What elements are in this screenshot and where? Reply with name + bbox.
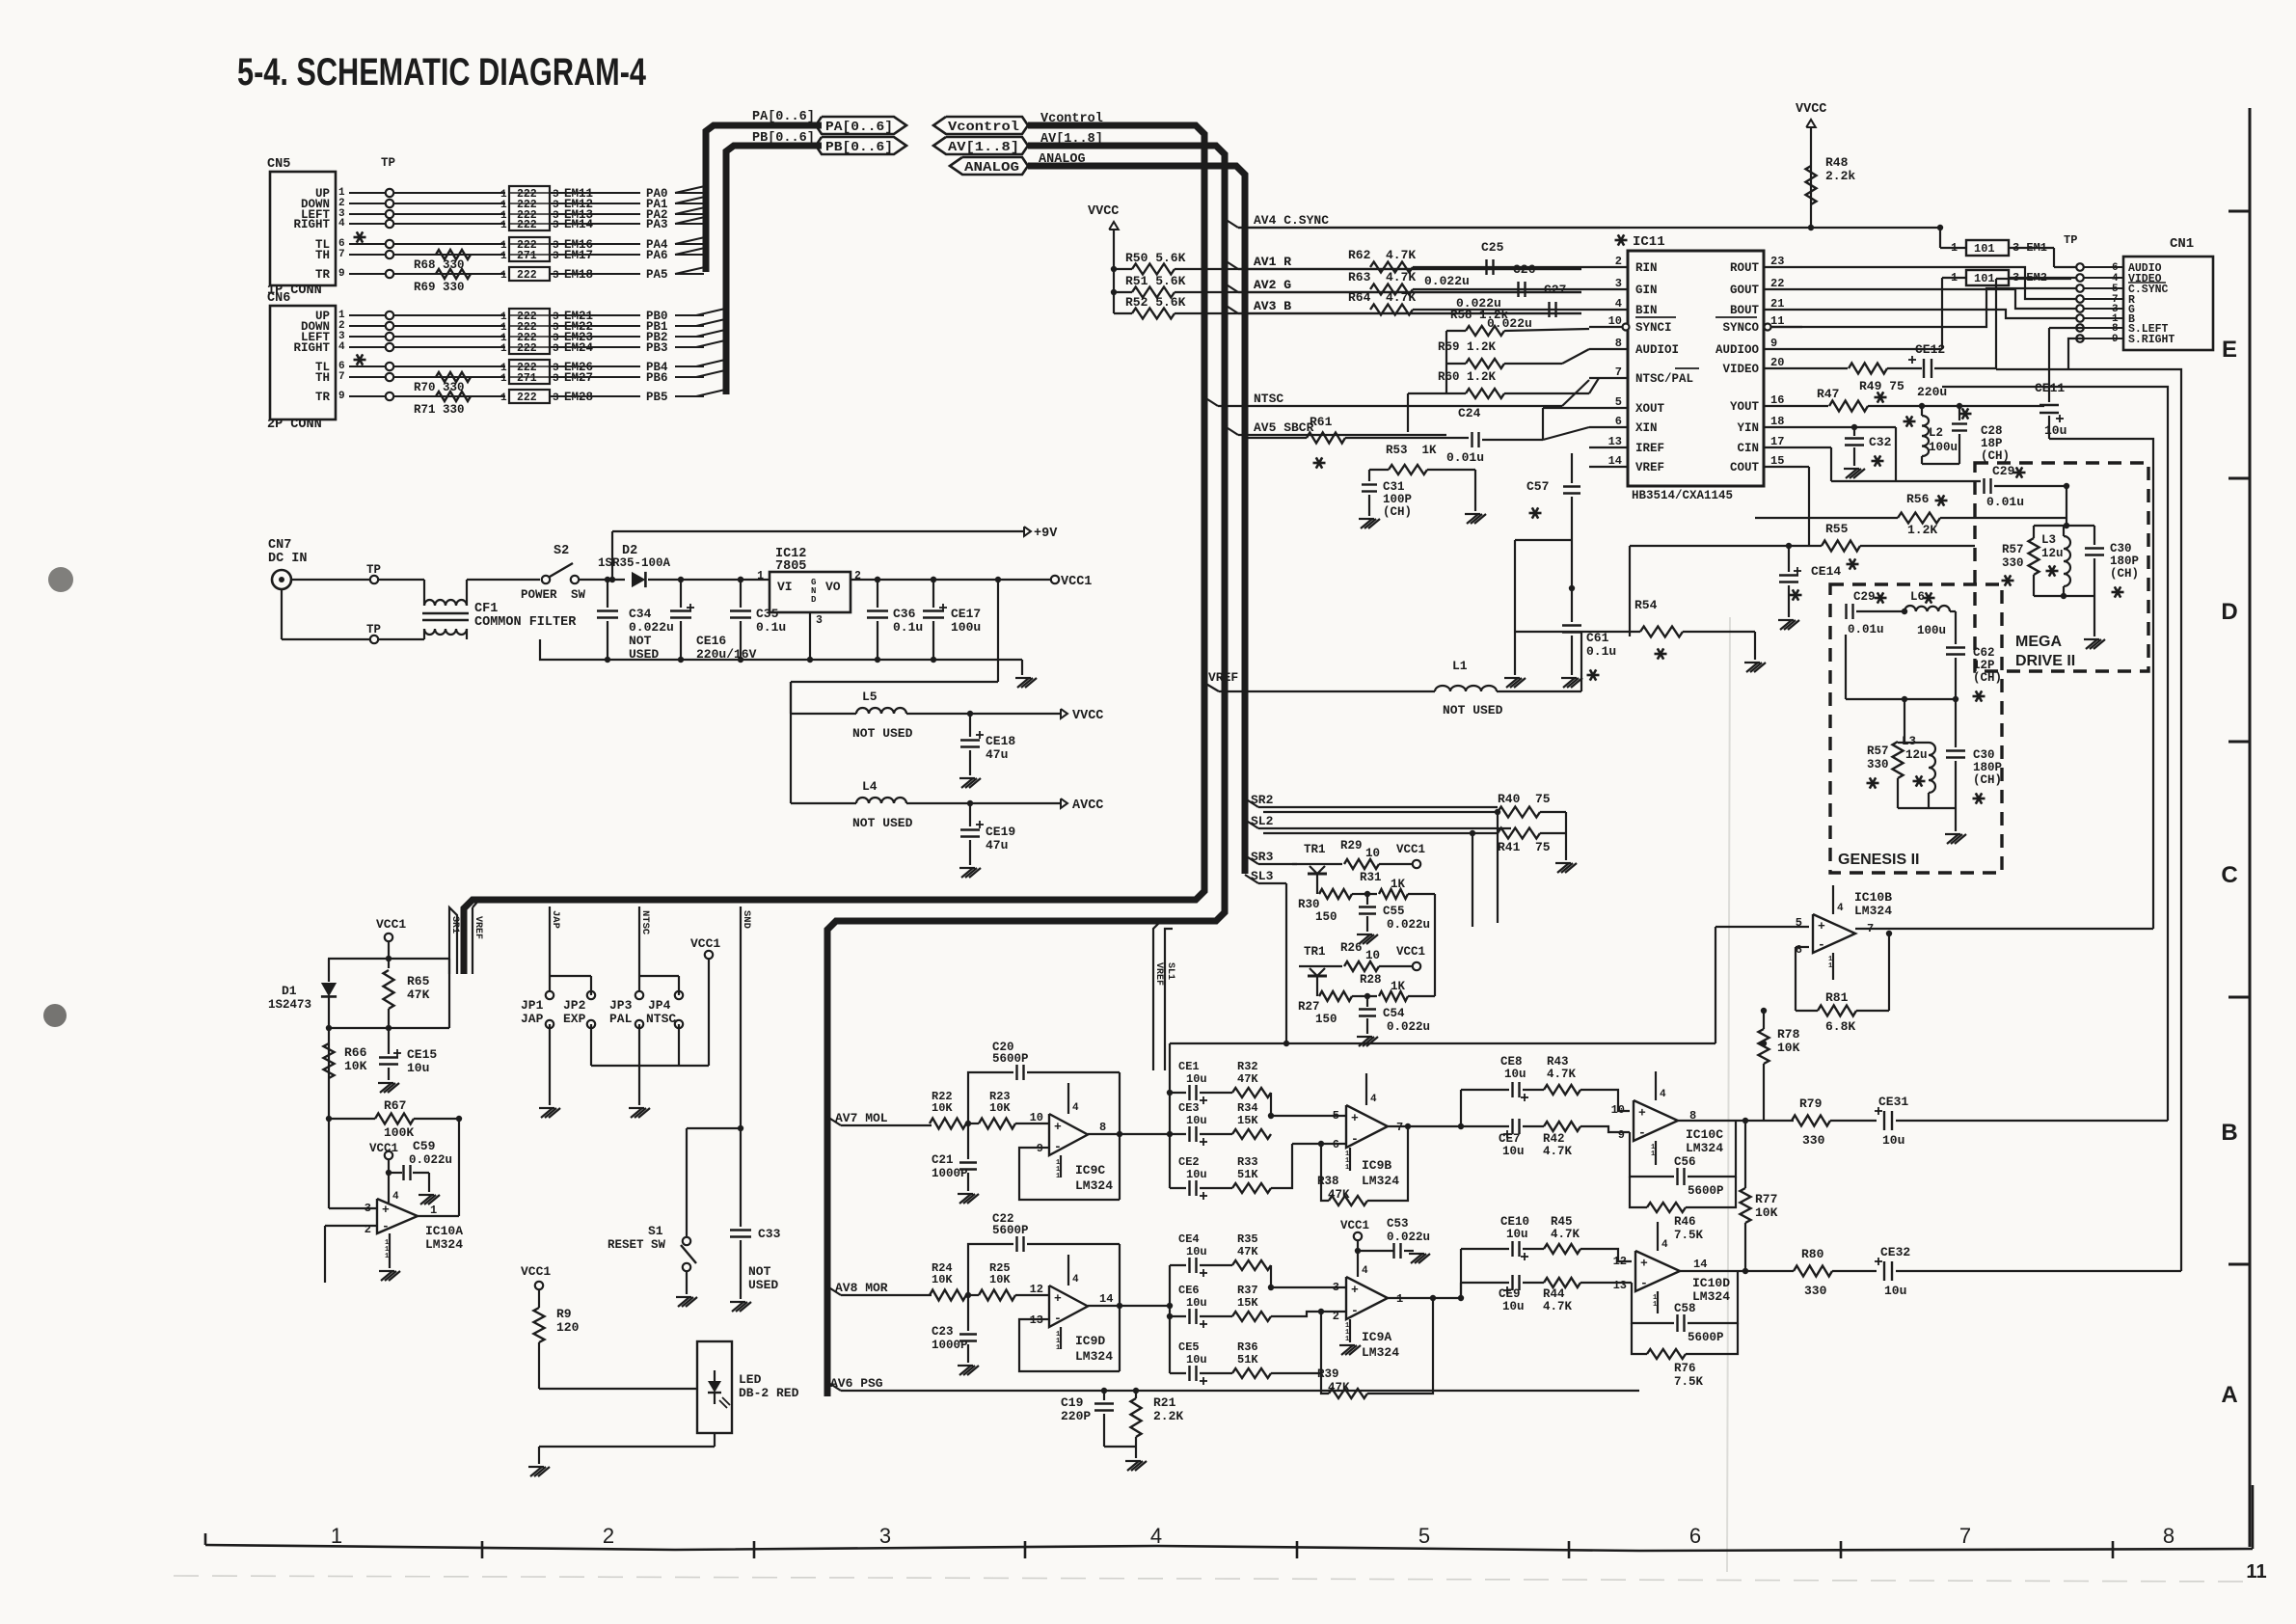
svg-text:VCC1: VCC1 — [521, 1264, 551, 1279]
svg-text:1: 1 — [385, 1253, 389, 1260]
svg-text:LM324: LM324 — [425, 1237, 463, 1252]
svg-text:100P: 100P — [1383, 493, 1412, 506]
svg-text:R26: R26 — [1340, 941, 1363, 955]
svg-text:D: D — [2221, 599, 2237, 625]
svg-text:XIN: XIN — [1635, 421, 1658, 435]
svg-text:0.01u: 0.01u — [1848, 623, 1884, 636]
svg-text:2: 2 — [603, 1524, 614, 1548]
svg-text:3: 3 — [553, 392, 559, 404]
svg-text:10: 10 — [1030, 1111, 1043, 1124]
svg-text:3: 3 — [553, 270, 559, 282]
svg-text:NOT USED: NOT USED — [852, 726, 913, 741]
svg-text:R80: R80 — [1801, 1247, 1824, 1261]
svg-text:S1: S1 — [648, 1224, 663, 1238]
svg-text:101: 101 — [1974, 272, 1995, 285]
svg-text:10u: 10u — [1186, 1296, 1207, 1310]
svg-text:C35: C35 — [756, 607, 779, 621]
svg-text:47u: 47u — [986, 747, 1008, 762]
svg-text:CF1: CF1 — [474, 602, 498, 616]
svg-text:10u: 10u — [1186, 1072, 1207, 1086]
svg-text:JP2: JP2 — [563, 998, 586, 1013]
svg-text:PA6: PA6 — [646, 249, 668, 262]
svg-text:NOT USED: NOT USED — [852, 816, 913, 830]
svg-text:0.022u: 0.022u — [1387, 918, 1430, 932]
svg-text:NTSC: NTSC — [646, 1012, 676, 1026]
svg-text:12u: 12u — [2041, 547, 2064, 560]
svg-text:3: 3 — [553, 251, 559, 262]
svg-text:DB-2 RED: DB-2 RED — [739, 1386, 799, 1400]
svg-text:12: 12 — [1030, 1283, 1043, 1296]
svg-text:R76: R76 — [1674, 1362, 1696, 1375]
svg-text:+: + — [382, 1203, 390, 1217]
svg-text:YIN: YIN — [1737, 421, 1759, 435]
svg-text:5: 5 — [1418, 1524, 1430, 1548]
svg-text:GENESIS II: GENESIS II — [1838, 852, 1919, 868]
svg-text:150: 150 — [1315, 910, 1337, 924]
svg-text:TR: TR — [315, 268, 331, 282]
svg-text:AVCC: AVCC — [1072, 798, 1103, 813]
svg-text:5600P: 5600P — [992, 1052, 1029, 1066]
svg-text:AV3 B: AV3 B — [1254, 299, 1291, 313]
svg-text:10K: 10K — [932, 1101, 953, 1115]
svg-text:PB6: PB6 — [646, 371, 668, 385]
svg-text:R46: R46 — [1674, 1215, 1696, 1229]
svg-text:C55: C55 — [1383, 905, 1405, 918]
svg-text:-: - — [382, 1219, 390, 1233]
svg-text:47K: 47K — [1237, 1245, 1258, 1259]
svg-text:0.022u: 0.022u — [1424, 274, 1470, 288]
svg-text:4.7K: 4.7K — [1547, 1068, 1577, 1081]
svg-text:R43: R43 — [1547, 1055, 1569, 1069]
svg-text:LM324: LM324 — [1075, 1178, 1113, 1193]
svg-text:TP: TP — [2064, 233, 2077, 247]
svg-text:10K: 10K — [989, 1273, 1011, 1286]
svg-text:R62 4.7K: R62 4.7K — [1348, 248, 1416, 262]
svg-text:+: + — [1351, 1111, 1359, 1125]
svg-text:3: 3 — [553, 220, 559, 231]
svg-text:R81: R81 — [1825, 990, 1849, 1005]
svg-text:12: 12 — [1613, 1255, 1627, 1268]
svg-text:+: + — [1640, 1257, 1648, 1271]
svg-text:0.022u: 0.022u — [629, 620, 674, 635]
svg-text:R63 4.7K: R63 4.7K — [1348, 270, 1416, 284]
svg-text:PA[0..6]: PA[0..6] — [752, 110, 815, 124]
svg-text:CE5: CE5 — [1178, 1340, 1200, 1354]
svg-text:CE19: CE19 — [986, 825, 1015, 839]
svg-text:PB5: PB5 — [646, 391, 668, 404]
svg-text:6.8K: 6.8K — [1825, 1019, 1855, 1034]
svg-text:R57: R57 — [1867, 744, 1889, 758]
svg-text:10u: 10u — [1186, 1114, 1207, 1127]
svg-text:VREF: VREF — [1153, 962, 1164, 986]
svg-text:CE17: CE17 — [951, 607, 981, 621]
svg-text:IC9C: IC9C — [1075, 1163, 1105, 1177]
svg-text:3: 3 — [553, 343, 559, 355]
svg-text:1: 1 — [1345, 1336, 1349, 1343]
svg-text:4: 4 — [1370, 1094, 1377, 1105]
svg-text:AUDIOI: AUDIOI — [1635, 343, 1679, 357]
svg-text:0.022u: 0.022u — [1387, 1020, 1430, 1034]
svg-text:C28: C28 — [1981, 424, 2003, 438]
svg-text:IC9D: IC9D — [1075, 1334, 1105, 1348]
svg-text:AV6 PSG: AV6 PSG — [830, 1376, 883, 1391]
svg-text:CE10: CE10 — [1500, 1215, 1529, 1229]
svg-text:IC10D: IC10D — [1692, 1276, 1730, 1290]
svg-text:C61: C61 — [1586, 631, 1609, 645]
svg-text:VCC1: VCC1 — [376, 917, 406, 932]
svg-text:C: C — [2221, 862, 2237, 888]
svg-text:-: - — [1351, 1131, 1359, 1146]
svg-text:5: 5 — [1333, 1109, 1339, 1123]
svg-text:+: + — [1638, 1106, 1646, 1121]
svg-text:1: 1 — [1828, 962, 1832, 970]
svg-text:R51 5.6K: R51 5.6K — [1125, 274, 1186, 288]
svg-text:10K: 10K — [932, 1273, 953, 1286]
svg-text:10u: 10u — [1504, 1068, 1526, 1081]
svg-text:B: B — [2221, 1120, 2237, 1146]
svg-text:47K: 47K — [407, 988, 430, 1002]
svg-text:7.5K: 7.5K — [1674, 1229, 1704, 1242]
svg-text:4.7K: 4.7K — [1543, 1145, 1573, 1158]
svg-text:R29: R29 — [1340, 839, 1363, 853]
svg-text:1: 1 — [500, 251, 507, 262]
svg-text:10u: 10u — [1884, 1284, 1906, 1298]
svg-text:TH: TH — [315, 371, 330, 385]
svg-text:4: 4 — [338, 341, 345, 353]
svg-text:R47: R47 — [1817, 387, 1839, 401]
svg-text:AV[1..8]: AV[1..8] — [948, 141, 1019, 155]
svg-text:100u: 100u — [951, 620, 981, 635]
svg-text:CE8: CE8 — [1500, 1055, 1523, 1069]
svg-text:271: 271 — [517, 250, 537, 262]
svg-text:JAP: JAP — [521, 1012, 544, 1026]
svg-text:4: 4 — [1072, 1102, 1079, 1114]
svg-text:220P: 220P — [1061, 1409, 1091, 1423]
svg-text:VIDEO: VIDEO — [1722, 363, 1759, 376]
svg-text:JAP: JAP — [550, 910, 561, 929]
svg-text:-: - — [1054, 1140, 1062, 1154]
svg-text:C25: C25 — [1481, 240, 1504, 255]
svg-text:(CH): (CH) — [2110, 567, 2139, 581]
svg-text:LM324: LM324 — [1362, 1345, 1399, 1360]
svg-text:14: 14 — [1693, 1258, 1707, 1271]
svg-text:15K: 15K — [1237, 1114, 1258, 1127]
svg-text:1S2473: 1S2473 — [268, 998, 311, 1012]
svg-text:5600P: 5600P — [992, 1224, 1029, 1237]
svg-text:L2: L2 — [1929, 426, 1943, 440]
svg-text:+: + — [1351, 1283, 1359, 1297]
svg-text:(CH): (CH) — [1973, 671, 2002, 685]
svg-text:LM324: LM324 — [1692, 1289, 1730, 1304]
svg-text:1K: 1K — [1391, 980, 1406, 993]
svg-text:0.1u: 0.1u — [1586, 644, 1616, 659]
svg-text:0.01u: 0.01u — [1446, 450, 1484, 465]
svg-text:COMMON FILTER: COMMON FILTER — [474, 615, 577, 630]
svg-text:R21: R21 — [1153, 1395, 1176, 1410]
svg-text:SND: SND — [741, 910, 752, 929]
svg-text:0.01u: 0.01u — [1986, 495, 2024, 509]
svg-text:R53 1K: R53 1K — [1386, 444, 1437, 457]
svg-text:SR3: SR3 — [1251, 850, 1274, 864]
svg-text:SL1: SL1 — [1165, 962, 1175, 980]
svg-text:SL3: SL3 — [1251, 869, 1274, 883]
svg-text:L1: L1 — [1452, 659, 1468, 673]
svg-text:1SR35-100A: 1SR35-100A — [598, 556, 671, 570]
svg-text:4: 4 — [1660, 1089, 1666, 1100]
svg-text:1: 1 — [1345, 1164, 1349, 1172]
svg-text:R31: R31 — [1360, 871, 1382, 884]
svg-text:+: + — [1054, 1120, 1062, 1134]
svg-text:VREF: VREF — [1208, 670, 1238, 685]
svg-text:VCC1: VCC1 — [1396, 945, 1425, 959]
svg-text:JP4: JP4 — [648, 998, 671, 1013]
svg-text:4: 4 — [1362, 1265, 1368, 1277]
svg-text:PB3: PB3 — [646, 341, 668, 355]
svg-text:3: 3 — [816, 614, 823, 627]
svg-text:C36: C36 — [893, 607, 916, 621]
svg-text:NOT: NOT — [748, 1264, 771, 1279]
svg-text:C26: C26 — [1513, 262, 1536, 277]
svg-text:1: 1 — [500, 392, 507, 404]
svg-text:S.RIGHT: S.RIGHT — [2128, 334, 2174, 346]
svg-text:C24: C24 — [1458, 406, 1481, 420]
svg-text:C29: C29 — [1853, 590, 1876, 604]
svg-text:R27: R27 — [1298, 1000, 1320, 1014]
svg-text:1: 1 — [1056, 1173, 1060, 1180]
svg-text:1: 1 — [500, 373, 507, 385]
svg-text:IC10C: IC10C — [1686, 1127, 1723, 1142]
svg-text:9: 9 — [338, 391, 345, 402]
svg-text:PB[0..6]: PB[0..6] — [752, 131, 815, 146]
svg-text:222: 222 — [517, 219, 537, 231]
svg-text:51K: 51K — [1237, 1168, 1258, 1181]
svg-text:1000P: 1000P — [932, 1339, 968, 1352]
svg-text:C59: C59 — [413, 1139, 436, 1153]
svg-text:-: - — [1054, 1312, 1062, 1326]
svg-text:R50 5.6K: R50 5.6K — [1125, 251, 1186, 265]
svg-text:4.7K: 4.7K — [1543, 1300, 1573, 1313]
svg-text:47u: 47u — [986, 838, 1008, 853]
svg-text:A: A — [2221, 1382, 2237, 1408]
svg-text:2P CONN: 2P CONN — [267, 418, 322, 432]
svg-text:LED: LED — [739, 1372, 762, 1387]
svg-text:PAL: PAL — [609, 1012, 633, 1026]
svg-text:IC9A: IC9A — [1362, 1330, 1391, 1344]
svg-text:R56: R56 — [1906, 492, 1930, 506]
svg-text:(CH): (CH) — [1973, 773, 2002, 787]
svg-text:7: 7 — [1959, 1524, 1971, 1548]
svg-text:R35: R35 — [1237, 1232, 1258, 1246]
svg-text:0.022u: 0.022u — [1387, 1231, 1430, 1244]
svg-text:VCC1: VCC1 — [1340, 1219, 1369, 1232]
svg-text:4: 4 — [1837, 903, 1844, 914]
svg-text:TP: TP — [381, 156, 395, 170]
svg-text:C29: C29 — [1992, 464, 2015, 478]
svg-text:TR1: TR1 — [1304, 843, 1326, 856]
svg-text:VREF: VREF — [1635, 461, 1664, 474]
svg-text:10u: 10u — [1502, 1145, 1525, 1158]
svg-text:R40 75: R40 75 — [1498, 792, 1551, 806]
svg-text:AV8 MOR: AV8 MOR — [835, 1281, 888, 1295]
svg-text:330: 330 — [1802, 1133, 1825, 1148]
svg-text:15K: 15K — [1237, 1296, 1258, 1310]
svg-text:C62: C62 — [1973, 646, 1995, 660]
svg-text:PA5: PA5 — [646, 268, 668, 282]
svg-text:SL1: SL1 — [457, 916, 468, 934]
svg-text:R66: R66 — [344, 1045, 367, 1060]
svg-text:BIN: BIN — [1635, 304, 1658, 317]
svg-text:C30: C30 — [1973, 748, 1995, 762]
svg-text:1: 1 — [500, 220, 507, 231]
svg-text:AV4 C.SYNC: AV4 C.SYNC — [1254, 213, 1329, 228]
svg-text:3: 3 — [553, 373, 559, 385]
svg-text:TR: TR — [315, 391, 331, 404]
svg-text:9: 9 — [338, 268, 345, 280]
svg-text:101: 101 — [1974, 242, 1995, 256]
svg-text:330: 330 — [2002, 556, 2024, 570]
svg-text:2: 2 — [1333, 1310, 1339, 1323]
svg-text:3: 3 — [1333, 1281, 1339, 1294]
svg-text:222: 222 — [517, 269, 537, 282]
svg-text:R9: R9 — [556, 1307, 572, 1321]
svg-text:9: 9 — [1618, 1128, 1625, 1142]
svg-text:C58: C58 — [1674, 1302, 1696, 1315]
svg-text:CE1: CE1 — [1178, 1060, 1200, 1073]
svg-text:1: 1 — [500, 343, 507, 355]
svg-text:SR2: SR2 — [1251, 793, 1274, 807]
svg-text:7805: 7805 — [775, 559, 806, 574]
svg-text:NTSC: NTSC — [639, 910, 651, 935]
svg-text:C53: C53 — [1387, 1217, 1409, 1231]
svg-text:GIN: GIN — [1635, 284, 1658, 297]
svg-text:R33: R33 — [1237, 1155, 1258, 1169]
svg-text:5-4. SCHEMATIC DIAGRAM-4: 5-4. SCHEMATIC DIAGRAM-4 — [237, 51, 647, 94]
svg-text:5600P: 5600P — [1688, 1331, 1724, 1344]
svg-text:C54: C54 — [1383, 1007, 1405, 1020]
svg-text:SL2: SL2 — [1251, 814, 1274, 828]
svg-text:4: 4 — [1661, 1239, 1668, 1251]
svg-text:10: 10 — [1365, 949, 1380, 962]
svg-text:6: 6 — [1689, 1524, 1701, 1548]
svg-text:CE2: CE2 — [1178, 1155, 1200, 1169]
svg-text:IREF: IREF — [1635, 442, 1664, 455]
svg-text:D1: D1 — [282, 984, 297, 998]
svg-text:LM324: LM324 — [1686, 1141, 1723, 1155]
svg-text:CE3: CE3 — [1178, 1101, 1200, 1115]
svg-text:R30: R30 — [1298, 898, 1320, 911]
svg-text:-: - — [1818, 937, 1825, 952]
svg-text:11: 11 — [2246, 1561, 2266, 1583]
svg-text:CE6: CE6 — [1178, 1284, 1200, 1297]
svg-text:4: 4 — [338, 218, 345, 230]
svg-text:L3: L3 — [2041, 533, 2056, 547]
svg-text:C31: C31 — [1383, 480, 1405, 494]
svg-text:C32: C32 — [1869, 435, 1892, 449]
svg-text:13: 13 — [1613, 1279, 1627, 1292]
svg-text:10u: 10u — [1502, 1300, 1525, 1313]
svg-text:JP3: JP3 — [609, 998, 633, 1013]
svg-text:CE4: CE4 — [1178, 1232, 1200, 1246]
svg-text:ROUT: ROUT — [1730, 261, 1760, 275]
svg-text:R52 5.6K: R52 5.6K — [1125, 295, 1186, 310]
svg-text:10u: 10u — [1186, 1353, 1207, 1367]
svg-text:(CH): (CH) — [1981, 449, 2010, 463]
svg-text:330: 330 — [1804, 1284, 1827, 1298]
svg-text:IC9B: IC9B — [1362, 1158, 1391, 1173]
svg-text:L5: L5 — [862, 690, 878, 704]
svg-text:IC10B: IC10B — [1854, 890, 1892, 905]
svg-text:AV1 R: AV1 R — [1254, 255, 1291, 269]
svg-text:LM324: LM324 — [1362, 1174, 1399, 1188]
svg-text:-: - — [1351, 1303, 1359, 1317]
svg-text:LM324: LM324 — [1075, 1349, 1113, 1364]
svg-text:R61: R61 — [1310, 415, 1333, 429]
svg-text:10K: 10K — [1755, 1205, 1778, 1220]
svg-text:CN1: CN1 — [2170, 236, 2194, 252]
svg-text:R41 75: R41 75 — [1498, 840, 1551, 854]
svg-text:AV2 G: AV2 G — [1254, 278, 1291, 292]
svg-text:L4: L4 — [862, 779, 878, 794]
svg-text:-: - — [1638, 1125, 1646, 1140]
svg-text:10K: 10K — [1777, 1041, 1800, 1055]
svg-text:3: 3 — [879, 1524, 891, 1548]
svg-text:CIN: CIN — [1737, 442, 1759, 455]
svg-text:CE32: CE32 — [1880, 1245, 1910, 1259]
svg-text:VCC1: VCC1 — [1061, 575, 1092, 589]
svg-text:C56: C56 — [1674, 1155, 1696, 1169]
svg-text:D: D — [811, 595, 817, 605]
svg-text:AV5 SBCR: AV5 SBCR — [1254, 420, 1314, 435]
svg-text:R48: R48 — [1825, 155, 1849, 170]
svg-text:C30: C30 — [2110, 542, 2132, 555]
svg-text:R64 4.7K: R64 4.7K — [1348, 290, 1416, 305]
svg-text:222: 222 — [517, 342, 537, 355]
svg-text:(CH): (CH) — [1383, 505, 1412, 519]
svg-text:CE31: CE31 — [1878, 1095, 1908, 1109]
svg-text:180P: 180P — [1973, 761, 2002, 774]
svg-text:10K: 10K — [989, 1101, 1011, 1115]
svg-text:VO: VO — [825, 580, 841, 594]
svg-text:R37: R37 — [1237, 1284, 1258, 1297]
svg-text:VI: VI — [777, 580, 793, 594]
svg-text:TR1: TR1 — [1304, 945, 1326, 959]
svg-text:R44: R44 — [1543, 1287, 1565, 1301]
svg-text:R54: R54 — [1634, 598, 1658, 612]
svg-text:XOUT: XOUT — [1635, 402, 1665, 416]
svg-text:+: + — [1054, 1291, 1062, 1306]
svg-text:0.1u: 0.1u — [893, 620, 923, 635]
svg-text:HB3514/CXA1145: HB3514/CXA1145 — [1632, 489, 1733, 502]
svg-text:1: 1 — [1056, 1344, 1060, 1352]
svg-text:12P: 12P — [1973, 659, 1995, 672]
svg-text:RIGHT: RIGHT — [293, 341, 330, 355]
svg-text:R28: R28 — [1360, 973, 1382, 987]
svg-text:R79: R79 — [1799, 1096, 1823, 1111]
svg-text:EXP: EXP — [563, 1012, 586, 1026]
svg-text:E: E — [2222, 337, 2237, 363]
svg-text:VCC1: VCC1 — [690, 936, 720, 951]
svg-text:R32: R32 — [1237, 1060, 1258, 1073]
svg-text:R36: R36 — [1237, 1340, 1258, 1354]
svg-text:CN7: CN7 — [268, 538, 291, 553]
svg-text:CE15: CE15 — [407, 1047, 437, 1062]
svg-text:TH: TH — [315, 249, 330, 262]
svg-text:18P: 18P — [1981, 437, 2003, 450]
svg-text:IC10A: IC10A — [425, 1224, 463, 1238]
svg-text:+9V: +9V — [1034, 527, 1058, 541]
svg-text:4: 4 — [1150, 1524, 1162, 1548]
svg-text:222: 222 — [517, 392, 537, 404]
